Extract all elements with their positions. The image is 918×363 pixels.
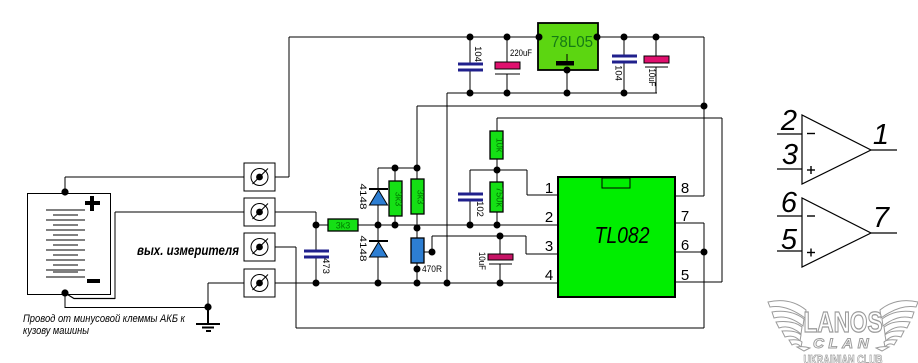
op-amp U1 TL082	[558, 177, 675, 297]
wire C220uF leads	[506, 37, 508, 62]
regulator U2 78L05	[538, 23, 598, 70]
wire ground row D	[275, 282, 558, 284]
node dots top rail	[467, 34, 660, 41]
resistor R 750k	[490, 182, 503, 212]
svg-text:3k3: 3k3	[416, 190, 426, 205]
svg-text:6: 6	[781, 187, 798, 219]
node dots row A	[392, 165, 399, 172]
wire feedback net	[470, 169, 527, 171]
wire pin5	[675, 281, 722, 283]
capacitor C10uF-2	[488, 254, 513, 264]
wire riser to pins 6-7	[703, 223, 705, 328]
capacitor C473 plates	[304, 251, 329, 257]
wire power ground drop	[446, 93, 448, 283]
wire to terminal X4	[208, 282, 244, 284]
wire C102 bottom lead	[469, 200, 471, 225]
svg-text:1: 1	[545, 180, 553, 197]
ground symbol	[196, 307, 220, 331]
capacitor C104a plates	[458, 64, 483, 70]
terminal X3	[244, 233, 275, 261]
svg-text:3k3: 3k3	[394, 192, 404, 207]
wire R2 3k3 leads	[416, 168, 418, 179]
svg-text:5: 5	[781, 224, 798, 256]
wire pin5 column	[721, 118, 723, 282]
wire ground node riser	[207, 283, 209, 307]
svg-text:6: 6	[681, 237, 689, 254]
wire row A	[378, 167, 417, 169]
svg-text:4148: 4148	[357, 236, 368, 262]
svg-text:10uF: 10uF	[476, 252, 487, 270]
wire pin5 rail	[497, 117, 722, 119]
wire signal row B	[316, 224, 558, 226]
svg-text:1: 1	[873, 119, 889, 151]
wire R470R leads	[416, 225, 418, 238]
wire C104a leads	[469, 37, 471, 63]
wire C 10uF-1 bottom riser	[655, 67, 657, 93]
svg-text:78L05: 78L05	[551, 34, 593, 51]
wire bottom feedback run	[296, 327, 704, 329]
wire pin7	[675, 222, 704, 224]
wire power ground rail	[447, 92, 657, 94]
wire R750k leads	[496, 170, 498, 182]
wire R1 3k3 leads	[394, 168, 396, 181]
wire pin3 run	[432, 235, 526, 237]
wire X2 left lead	[115, 211, 244, 213]
battery plus sign	[85, 196, 100, 211]
svg-text:10uF: 10uF	[646, 69, 657, 87]
op-amp B symbol	[777, 198, 897, 267]
resistor R 10k	[490, 131, 503, 159]
svg-text:3: 3	[782, 139, 798, 171]
svg-text:470R: 470R	[422, 264, 442, 275]
wire battery minus to terminal X2	[65, 293, 115, 299]
svg-text:4148: 4148	[357, 184, 368, 210]
wire top rail left drop to terminal X1	[288, 37, 290, 177]
trimmer R 470R	[411, 238, 424, 263]
resistor R 3k3 horizontal	[328, 219, 358, 231]
capacitor C10uF-1	[644, 56, 669, 67]
svg-text:102: 102	[474, 201, 485, 217]
node trimmer bottom	[414, 266, 421, 273]
wire pin3 drop	[525, 236, 527, 254]
terminal X2	[244, 198, 275, 226]
node chassis ground	[204, 303, 211, 310]
wire trimmer tap	[424, 251, 432, 253]
op-amp B minus	[807, 215, 815, 217]
op-amp A plus	[807, 166, 815, 174]
op-amp B plus	[807, 249, 815, 257]
wire V+ column	[703, 37, 705, 196]
svg-text:2: 2	[545, 209, 553, 226]
logo right wing	[876, 301, 918, 351]
wire battery minus to ground node	[65, 307, 208, 309]
svg-text:TL082: TL082	[595, 222, 650, 248]
capacitor C220uF	[495, 62, 520, 74]
svg-text:Провод от минусовой клеммы АКБ: Провод от минусовой клеммы АКБ к	[23, 313, 186, 325]
node pin3 cap	[497, 233, 504, 240]
wire pin8	[675, 195, 704, 197]
wire pin1 riser	[526, 170, 528, 195]
wire +V top rail	[289, 36, 704, 38]
battery GB1 box	[28, 194, 111, 295]
wire terminal X2 out	[275, 211, 316, 213]
svg-text:4: 4	[545, 267, 553, 284]
node pin6	[701, 249, 708, 256]
svg-text:5: 5	[681, 267, 689, 284]
node dots power ground rail	[467, 67, 628, 97]
capacitor C104b plates	[612, 56, 637, 62]
node battery plus	[61, 188, 68, 195]
svg-text:10k: 10k	[495, 138, 505, 153]
terminal X4	[244, 269, 275, 297]
wire X3 drop	[295, 247, 297, 328]
op-amp A symbol	[777, 115, 897, 184]
wire R10k bottom lead	[496, 159, 498, 170]
wire +5V rail drop	[416, 106, 418, 168]
capacitor C102 plates	[458, 194, 483, 200]
svg-text:UKRAINIAN CLUB: UKRAINIAN CLUB	[804, 352, 883, 363]
node dots row D	[313, 280, 504, 287]
wire C102 top lead	[469, 170, 471, 194]
svg-text:2: 2	[780, 105, 797, 137]
logo left wing	[768, 301, 810, 351]
wire D1 leads	[377, 168, 379, 189]
wire C473 bottom lead	[315, 257, 317, 283]
svg-text:7: 7	[681, 208, 689, 225]
wire +5V rail	[417, 105, 704, 107]
svg-text:3k3: 3k3	[336, 221, 351, 231]
svg-text:220uF: 220uF	[510, 48, 532, 59]
wire	[315, 212, 317, 225]
svg-text:8: 8	[681, 180, 689, 197]
wire C10uF-2 leads	[499, 236, 501, 254]
resistor R2 3k3	[411, 179, 424, 214]
wire battery plus lead	[64, 177, 66, 210]
svg-text:7: 7	[873, 202, 891, 234]
svg-text:CLAN: CLAN	[813, 335, 873, 351]
svg-text:кузову машины: кузову машины	[23, 325, 89, 337]
wire battery plus to terminal X1	[65, 176, 289, 178]
battery GB1 cells	[46, 210, 85, 277]
wire C10uF-1 top lead	[655, 37, 657, 56]
node battery minus	[61, 289, 68, 296]
wire C104b leads	[623, 37, 625, 56]
svg-text:вых. измерителя: вых. измерителя	[137, 243, 239, 258]
diode D1 4148	[369, 189, 388, 205]
wire D2 leads	[377, 225, 379, 241]
svg-text:750k: 750k	[495, 187, 505, 207]
wire terminal X3 out	[275, 246, 296, 248]
wire X2 riser	[114, 212, 116, 299]
svg-text:104: 104	[613, 65, 624, 81]
wire pin1	[527, 194, 558, 196]
wire pin6	[675, 251, 704, 253]
diode D2 4148	[369, 241, 388, 257]
battery minus sign	[87, 279, 100, 283]
node +5V corner	[701, 103, 708, 110]
WATERMARK LOGO	[768, 301, 918, 363]
svg-text:3: 3	[545, 238, 553, 255]
op-amp A minus	[807, 133, 815, 135]
wire 78L05 ground lead	[566, 65, 568, 93]
terminal X1	[244, 163, 275, 191]
wire pin3	[526, 253, 558, 255]
svg-text:104: 104	[472, 46, 483, 62]
wire battery minus lead	[64, 277, 66, 308]
wire C473 top lead	[315, 225, 317, 251]
node trimmer tap	[429, 249, 436, 256]
svg-text:473: 473	[320, 258, 331, 274]
node dots row B	[313, 222, 501, 232]
node feedback	[494, 167, 501, 174]
resistor R1 3k3	[389, 181, 402, 216]
wire R 10k top lead	[496, 118, 498, 131]
